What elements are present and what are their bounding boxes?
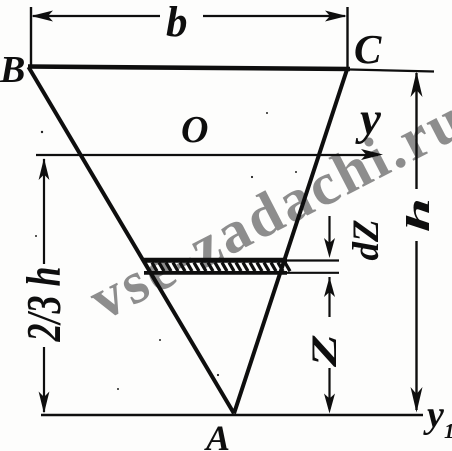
- scan noise dots: [41, 131, 43, 133]
- y axis line: [36, 154, 378, 156]
- arrowhead b right: [325, 11, 347, 22]
- dimension line b (top): [33, 15, 345, 17]
- arrowhead dZ/Z up (to strip bottom): [324, 277, 335, 297]
- h dimension line upper: [415, 73, 417, 189]
- arrowhead h up: [411, 72, 423, 98]
- triangle side BC (thick top): [28, 67, 350, 70]
- extension line left (from B): [30, 7, 32, 66]
- triangle side CA: [234, 70, 347, 414]
- svg-text:2/3 h: 2/3 h: [18, 267, 71, 343]
- 2/3h dimension line upper: [43, 159, 45, 264]
- arrowhead 2/3h down: [39, 392, 50, 414]
- extension line right (from C): [346, 7, 348, 70]
- svg-text:Z: Z: [304, 334, 344, 368]
- svg-text:y: y: [423, 394, 444, 436]
- strip extension lines right: [287, 261, 339, 273]
- arrowhead b left: [31, 11, 53, 22]
- h dimension line lower: [415, 241, 417, 410]
- 2/3h dimension line lower: [43, 347, 45, 412]
- svg-text:B: B: [0, 49, 25, 91]
- arrowhead h down: [411, 387, 423, 413]
- triangle side BA: [29, 67, 235, 414]
- strip hatching: [145, 263, 290, 272]
- svg-text:b: b: [166, 0, 188, 46]
- dZ dimension line upper: [328, 216, 330, 252]
- strip bottom border: [144, 271, 287, 275]
- svg-text:dZ: dZ: [346, 219, 387, 260]
- arrowhead y axis right: [361, 149, 383, 160]
- arrowhead dZ down (to strip top): [324, 238, 335, 258]
- top line thin extension right of C: [350, 70, 434, 72]
- svg-text:A: A: [204, 418, 230, 451]
- Z dimension line lower: [328, 368, 330, 409]
- bottom axis line y1: [41, 414, 423, 417]
- svg-text:h: h: [400, 198, 436, 232]
- arrowhead Z down (to bottom line): [324, 394, 335, 414]
- dZ / Z shared dimension line below strip: [328, 277, 330, 317]
- svg-text:C: C: [354, 26, 382, 72]
- svg-text:1: 1: [444, 419, 452, 443]
- strip top border: [144, 258, 287, 263]
- arrowhead 2/3h up: [39, 158, 50, 180]
- svg-text:O: O: [181, 109, 208, 151]
